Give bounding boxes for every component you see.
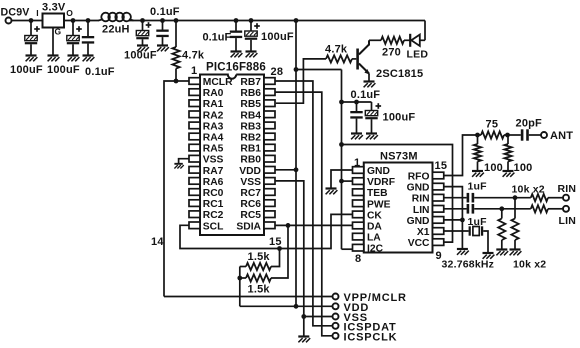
label pin 14 <box>151 236 164 248</box>
U1 pin labels <box>203 77 262 232</box>
svg-text:GND: GND <box>407 183 430 194</box>
resistor R2 270 (LED) <box>369 37 410 59</box>
label C3 0.1uF <box>85 66 115 78</box>
svg-text:PIC16F886: PIC16F886 <box>206 62 266 74</box>
svg-text:100uF: 100uF <box>383 112 416 124</box>
node junction R12 top <box>499 206 504 211</box>
node VDD terminal <box>333 302 370 314</box>
svg-text:LA: LA <box>367 233 381 244</box>
svg-text:RA1: RA1 <box>203 99 224 110</box>
wire SCL loop to NS73M CK <box>180 214 353 248</box>
node VPP/MCLR terminal <box>333 292 407 304</box>
svg-text:VDRF: VDRF <box>367 177 395 188</box>
label NS73M pin 15 <box>435 160 448 172</box>
label 10k x2 (top) <box>512 184 545 196</box>
svg-text:100: 100 <box>514 162 533 174</box>
node ICSPCLK terminal <box>333 332 398 344</box>
wire C11 to R9 <box>474 197 531 199</box>
node junction VDD pin <box>294 167 299 172</box>
node junction at C3 <box>86 18 91 23</box>
svg-text:RA3: RA3 <box>203 121 224 132</box>
node junction ICSP VDD <box>294 304 299 309</box>
resistor R6 75 (antenna) <box>478 119 508 139</box>
ground below R12 <box>496 250 508 256</box>
svg-text:RC5: RC5 <box>240 210 261 221</box>
U3 pin labels <box>367 166 430 255</box>
svg-text:20pF: 20pF <box>516 118 543 130</box>
ground below C5 <box>157 46 169 52</box>
svg-text:0.1uF: 0.1uF <box>150 6 180 18</box>
svg-text:100: 100 <box>484 162 503 174</box>
svg-text:270: 270 <box>382 47 401 59</box>
node junction C8 tap <box>354 100 359 105</box>
wire regulator G pin <box>52 28 54 56</box>
capacitor C11 1uF (RIN) <box>467 181 488 203</box>
wire pullups to VDD line <box>239 267 241 307</box>
resistor R10 10k (RIN shunt) <box>511 198 518 249</box>
svg-text:G: G <box>55 27 62 37</box>
svg-text:GND: GND <box>407 216 430 227</box>
ground below C6 <box>231 52 243 58</box>
svg-text:X1: X1 <box>417 227 430 238</box>
svg-text:DA: DA <box>367 222 382 233</box>
resistor R7 100 (antenna shunt 1) <box>474 135 503 174</box>
resistor R8 100 (antenna shunt 2) <box>504 135 532 174</box>
node ICSPDAT terminal <box>333 322 397 334</box>
svg-text:RC1: RC1 <box>203 199 224 210</box>
node DC9V input terminal <box>1 7 30 24</box>
ground below VSS vertical <box>298 337 310 343</box>
svg-text:I: I <box>36 8 39 18</box>
pin label O (regulator output) <box>66 8 73 18</box>
LED D1 <box>407 34 429 61</box>
svg-text:RC7: RC7 <box>240 188 261 199</box>
ground below NS73M GND pins <box>457 249 469 255</box>
wire caps stub <box>342 101 372 103</box>
label NS73M <box>380 151 418 163</box>
svg-text:RIN: RIN <box>412 194 430 205</box>
capacitor C6 0.1uF <box>230 21 242 52</box>
label C5 0.1uF <box>150 6 180 18</box>
svg-text:2SC1815: 2SC1815 <box>376 68 423 80</box>
capacitor C8 0.1uF (NS73M supply) <box>350 102 362 133</box>
svg-text:RB4: RB4 <box>240 110 261 121</box>
svg-text:RA6: RA6 <box>203 177 224 188</box>
node junction SDIA pullup <box>286 223 291 228</box>
label C6 0.1uF <box>203 32 232 44</box>
svg-text:RB0: RB0 <box>240 155 261 166</box>
svg-text:SDIA: SDIA <box>236 221 261 232</box>
svg-text:10k x2: 10k x2 <box>512 184 545 196</box>
svg-text:RB3: RB3 <box>240 121 261 132</box>
node junction R6 <box>475 133 480 138</box>
wire NS73M GND2 stub <box>444 219 463 221</box>
label C4 100uF <box>124 50 157 62</box>
label 10k x2 (bottom) <box>513 259 546 271</box>
wire VCC feed around NS73M <box>342 145 453 243</box>
svg-text:RA7: RA7 <box>203 166 224 177</box>
wire RIN to C11 <box>444 197 467 199</box>
svg-text:22uH: 22uH <box>102 24 130 36</box>
svg-text:RA4: RA4 <box>203 133 224 144</box>
svg-text:RA5: RA5 <box>203 144 224 155</box>
svg-text:RC2: RC2 <box>203 210 224 221</box>
regulator U2 3.3V box <box>42 2 66 28</box>
node VSS terminal <box>333 312 368 324</box>
node junction VDRF <box>339 179 344 184</box>
svg-text:RB1: RB1 <box>240 144 261 155</box>
svg-text:28: 28 <box>271 66 284 78</box>
svg-text:O: O <box>66 8 73 18</box>
node junction VDD caps stub <box>339 100 344 105</box>
wire VDD branch to x=341.5 <box>296 69 342 71</box>
svg-text:MCLR: MCLR <box>203 77 233 88</box>
svg-text:1: 1 <box>191 65 197 77</box>
wire VDD vertical x=341.5 <box>341 70 343 250</box>
label NS73M pin 1 <box>354 157 360 169</box>
svg-text:RA0: RA0 <box>203 88 224 99</box>
svg-text:100uF: 100uF <box>47 64 80 76</box>
wire RB7 to ICSPDAT <box>275 81 333 326</box>
node junction VSS-ICSP <box>301 314 306 319</box>
svg-text:NS73M: NS73M <box>380 151 418 163</box>
svg-text:CK: CK <box>367 210 382 221</box>
IC U1 PIC16F886 body <box>200 75 264 236</box>
svg-text:PWE: PWE <box>367 199 391 210</box>
label C8 0.1uF <box>351 89 381 101</box>
wire RB6 to ICSPCLK <box>275 92 333 336</box>
label C7 100uF <box>261 31 294 43</box>
label PIC16F886 <box>206 62 266 74</box>
capacitor C4 100uF electrolytic <box>136 21 151 46</box>
svg-text:LED: LED <box>407 49 429 61</box>
ground at PIC VSS pin 8 <box>174 164 183 169</box>
wire NS73M GND1 to ground <box>331 170 353 188</box>
wire ICSP VSS line <box>304 316 333 318</box>
svg-text:RB7: RB7 <box>240 77 261 88</box>
resistor R3 4.7k (base) <box>325 44 356 63</box>
wire VDD vertical x=296 <box>295 21 297 307</box>
ground below R8 <box>503 171 515 177</box>
svg-text:14: 14 <box>151 236 164 248</box>
node junction VDD branch to NS73M <box>294 67 299 72</box>
svg-text:100uF: 100uF <box>10 64 43 76</box>
ground below crystal <box>483 253 495 259</box>
svg-text:75: 75 <box>486 119 499 131</box>
svg-text:VSS: VSS <box>203 155 224 166</box>
svg-text:VCC: VCC <box>408 238 430 249</box>
label C1 100uF <box>10 64 43 76</box>
wire RB5 to base resistor <box>276 59 326 103</box>
svg-text:RB2: RB2 <box>240 133 261 144</box>
resistor R1 4.7k MCLR pullup <box>172 21 204 82</box>
wire NS73M GND pins to ground <box>444 187 463 249</box>
ground below C2 <box>68 56 80 62</box>
svg-text:TEB: TEB <box>367 188 388 199</box>
wire MCLR junction to pin <box>176 80 189 82</box>
ground below R10 <box>510 250 522 256</box>
node junction at R1 <box>174 18 179 23</box>
label regulator 100uF <box>47 64 80 76</box>
svg-text:3.3V: 3.3V <box>42 2 66 14</box>
resistor R5 1.5k (SDIA pullup) <box>240 225 288 295</box>
svg-text:RB5: RB5 <box>240 99 261 110</box>
label C9 100uF <box>383 112 416 124</box>
svg-text:1.5k: 1.5k <box>248 284 271 296</box>
ground below C1 <box>26 56 38 62</box>
node ANT terminal <box>541 130 573 142</box>
capacitor C3 0.1uF <box>82 21 94 56</box>
wire VDD pin to VDD vertical <box>275 169 296 171</box>
wire VPP/MCLR line <box>164 296 333 298</box>
svg-text:VDD: VDD <box>239 166 261 177</box>
ground below regulator <box>48 56 60 62</box>
U3 pin boxes <box>353 167 444 251</box>
node junction C10 <box>505 133 510 138</box>
wire LED drop from rail <box>424 21 426 41</box>
svg-text:100uF: 100uF <box>124 50 157 62</box>
svg-text:LIN: LIN <box>559 215 577 227</box>
svg-text:0.1uF: 0.1uF <box>85 66 115 78</box>
wire PIC VSS(8) to ground <box>179 159 189 164</box>
node junction at C5 <box>160 18 165 23</box>
svg-text:DC9V: DC9V <box>1 7 30 19</box>
svg-text:VSS: VSS <box>240 177 261 188</box>
IC U3 NS73M body <box>364 163 433 253</box>
node junction GND pins <box>460 218 465 223</box>
svg-text:RC0: RC0 <box>203 188 224 199</box>
node RIN terminal <box>563 195 569 201</box>
svg-text:10k x2: 10k x2 <box>513 259 546 271</box>
label pin 15 <box>269 236 282 248</box>
node junction at C7 <box>249 18 254 23</box>
svg-text:ANT: ANT <box>550 130 573 142</box>
ground at NS73M GND1 <box>326 189 338 195</box>
pin label I (regulator input) <box>36 8 39 18</box>
node junction at C6 <box>234 18 239 23</box>
wire C12 to R11 <box>474 208 531 210</box>
svg-text:4.7k: 4.7k <box>182 50 205 62</box>
capacitor C10 20pF <box>508 118 543 141</box>
node junction at C1 <box>29 18 34 23</box>
ground below C9 <box>366 134 378 140</box>
svg-text:SCL: SCL <box>203 221 224 232</box>
wire SDIA to NS73M DA <box>275 224 353 226</box>
svg-text:RB6: RB6 <box>240 88 261 99</box>
wire regulator output to inductor <box>64 20 99 22</box>
capacitor C7 100uF electrolytic <box>245 21 260 52</box>
svg-text:1uF: 1uF <box>468 181 488 193</box>
svg-text:0.1uF: 0.1uF <box>351 89 381 101</box>
svg-text:1.5k: 1.5k <box>248 251 271 263</box>
pin label G (regulator ground) <box>55 27 62 37</box>
svg-text:GND: GND <box>367 166 390 177</box>
ground below Q1 emitter <box>364 82 376 88</box>
svg-text:32.768kHz: 32.768kHz <box>442 259 495 271</box>
capacitor C5 0.1uF <box>156 21 168 46</box>
ground below C8 <box>351 134 363 140</box>
svg-text:I2C: I2C <box>367 244 384 255</box>
label NS73M pin 9 <box>436 250 442 262</box>
wire I2C pin tied to VDD <box>342 248 353 250</box>
label NS73M pin 8 <box>355 253 361 265</box>
resistor R12 10k (LIN shunt) <box>498 209 505 249</box>
wire LIN to C12 <box>444 208 467 210</box>
svg-text:ICSPCLK: ICSPCLK <box>344 332 398 344</box>
wire VDRF to VDD <box>342 180 353 182</box>
crystal Y1 32.768kHz <box>442 226 495 270</box>
svg-text:100uF: 100uF <box>261 31 294 43</box>
label pin 1 <box>191 65 197 77</box>
ground below C4 <box>137 46 149 52</box>
svg-text:RFO: RFO <box>408 172 430 183</box>
wire VSS pin to VSS vertical <box>275 181 304 336</box>
node junction pullup pair <box>237 276 242 281</box>
wire X1 to crystal <box>444 230 469 232</box>
transistor Q1 2SC1815 <box>356 40 423 81</box>
ground below C7 <box>246 52 258 58</box>
node LIN terminal <box>563 206 569 212</box>
node MCLR junction <box>174 79 179 84</box>
svg-text:15: 15 <box>435 160 448 172</box>
capacitor C12 1uF (LIN) <box>467 204 488 228</box>
svg-text:8: 8 <box>355 253 361 265</box>
svg-text:0.1uF: 0.1uF <box>203 32 232 44</box>
node junction VCC branch <box>339 142 344 147</box>
wire VDD rail (inductor to LED drop) <box>129 20 426 22</box>
svg-text:4.7k: 4.7k <box>325 44 348 56</box>
label pin 28 <box>271 66 284 78</box>
node junction SCL pullup <box>277 246 282 251</box>
ground below R7 <box>472 171 484 177</box>
node junction at C4 <box>140 18 145 23</box>
svg-text:RIN: RIN <box>558 183 577 195</box>
inductor L1 22uH <box>99 13 134 36</box>
node junction VDD rail drop <box>294 18 299 23</box>
wire ICSP VDD line <box>240 305 333 307</box>
ground below C3 <box>83 56 95 62</box>
svg-text:RC6: RC6 <box>240 199 261 210</box>
node junction at C2 <box>71 18 76 23</box>
svg-text:RA2: RA2 <box>203 110 224 121</box>
resistor R9 10k (RIN series) <box>531 183 576 201</box>
node junction R10 top <box>513 195 518 200</box>
capacitor C1 100uF input electrolytic <box>25 21 40 56</box>
capacitor C2 100uF electrolytic <box>67 21 82 56</box>
resistor R11 10k (LIN series) <box>531 205 576 227</box>
resistor R4 1.5k (SCL pullup) <box>240 249 280 271</box>
U1 pin boxes <box>189 78 275 229</box>
wire MCLR net down the left side <box>164 81 176 297</box>
capacitor C9 100uF electrolytic (NS73M supply) <box>365 102 381 133</box>
wire DC9V to regulator input <box>12 20 43 22</box>
svg-text:LIN: LIN <box>413 205 430 216</box>
wire RFO up to matching network <box>444 135 478 176</box>
